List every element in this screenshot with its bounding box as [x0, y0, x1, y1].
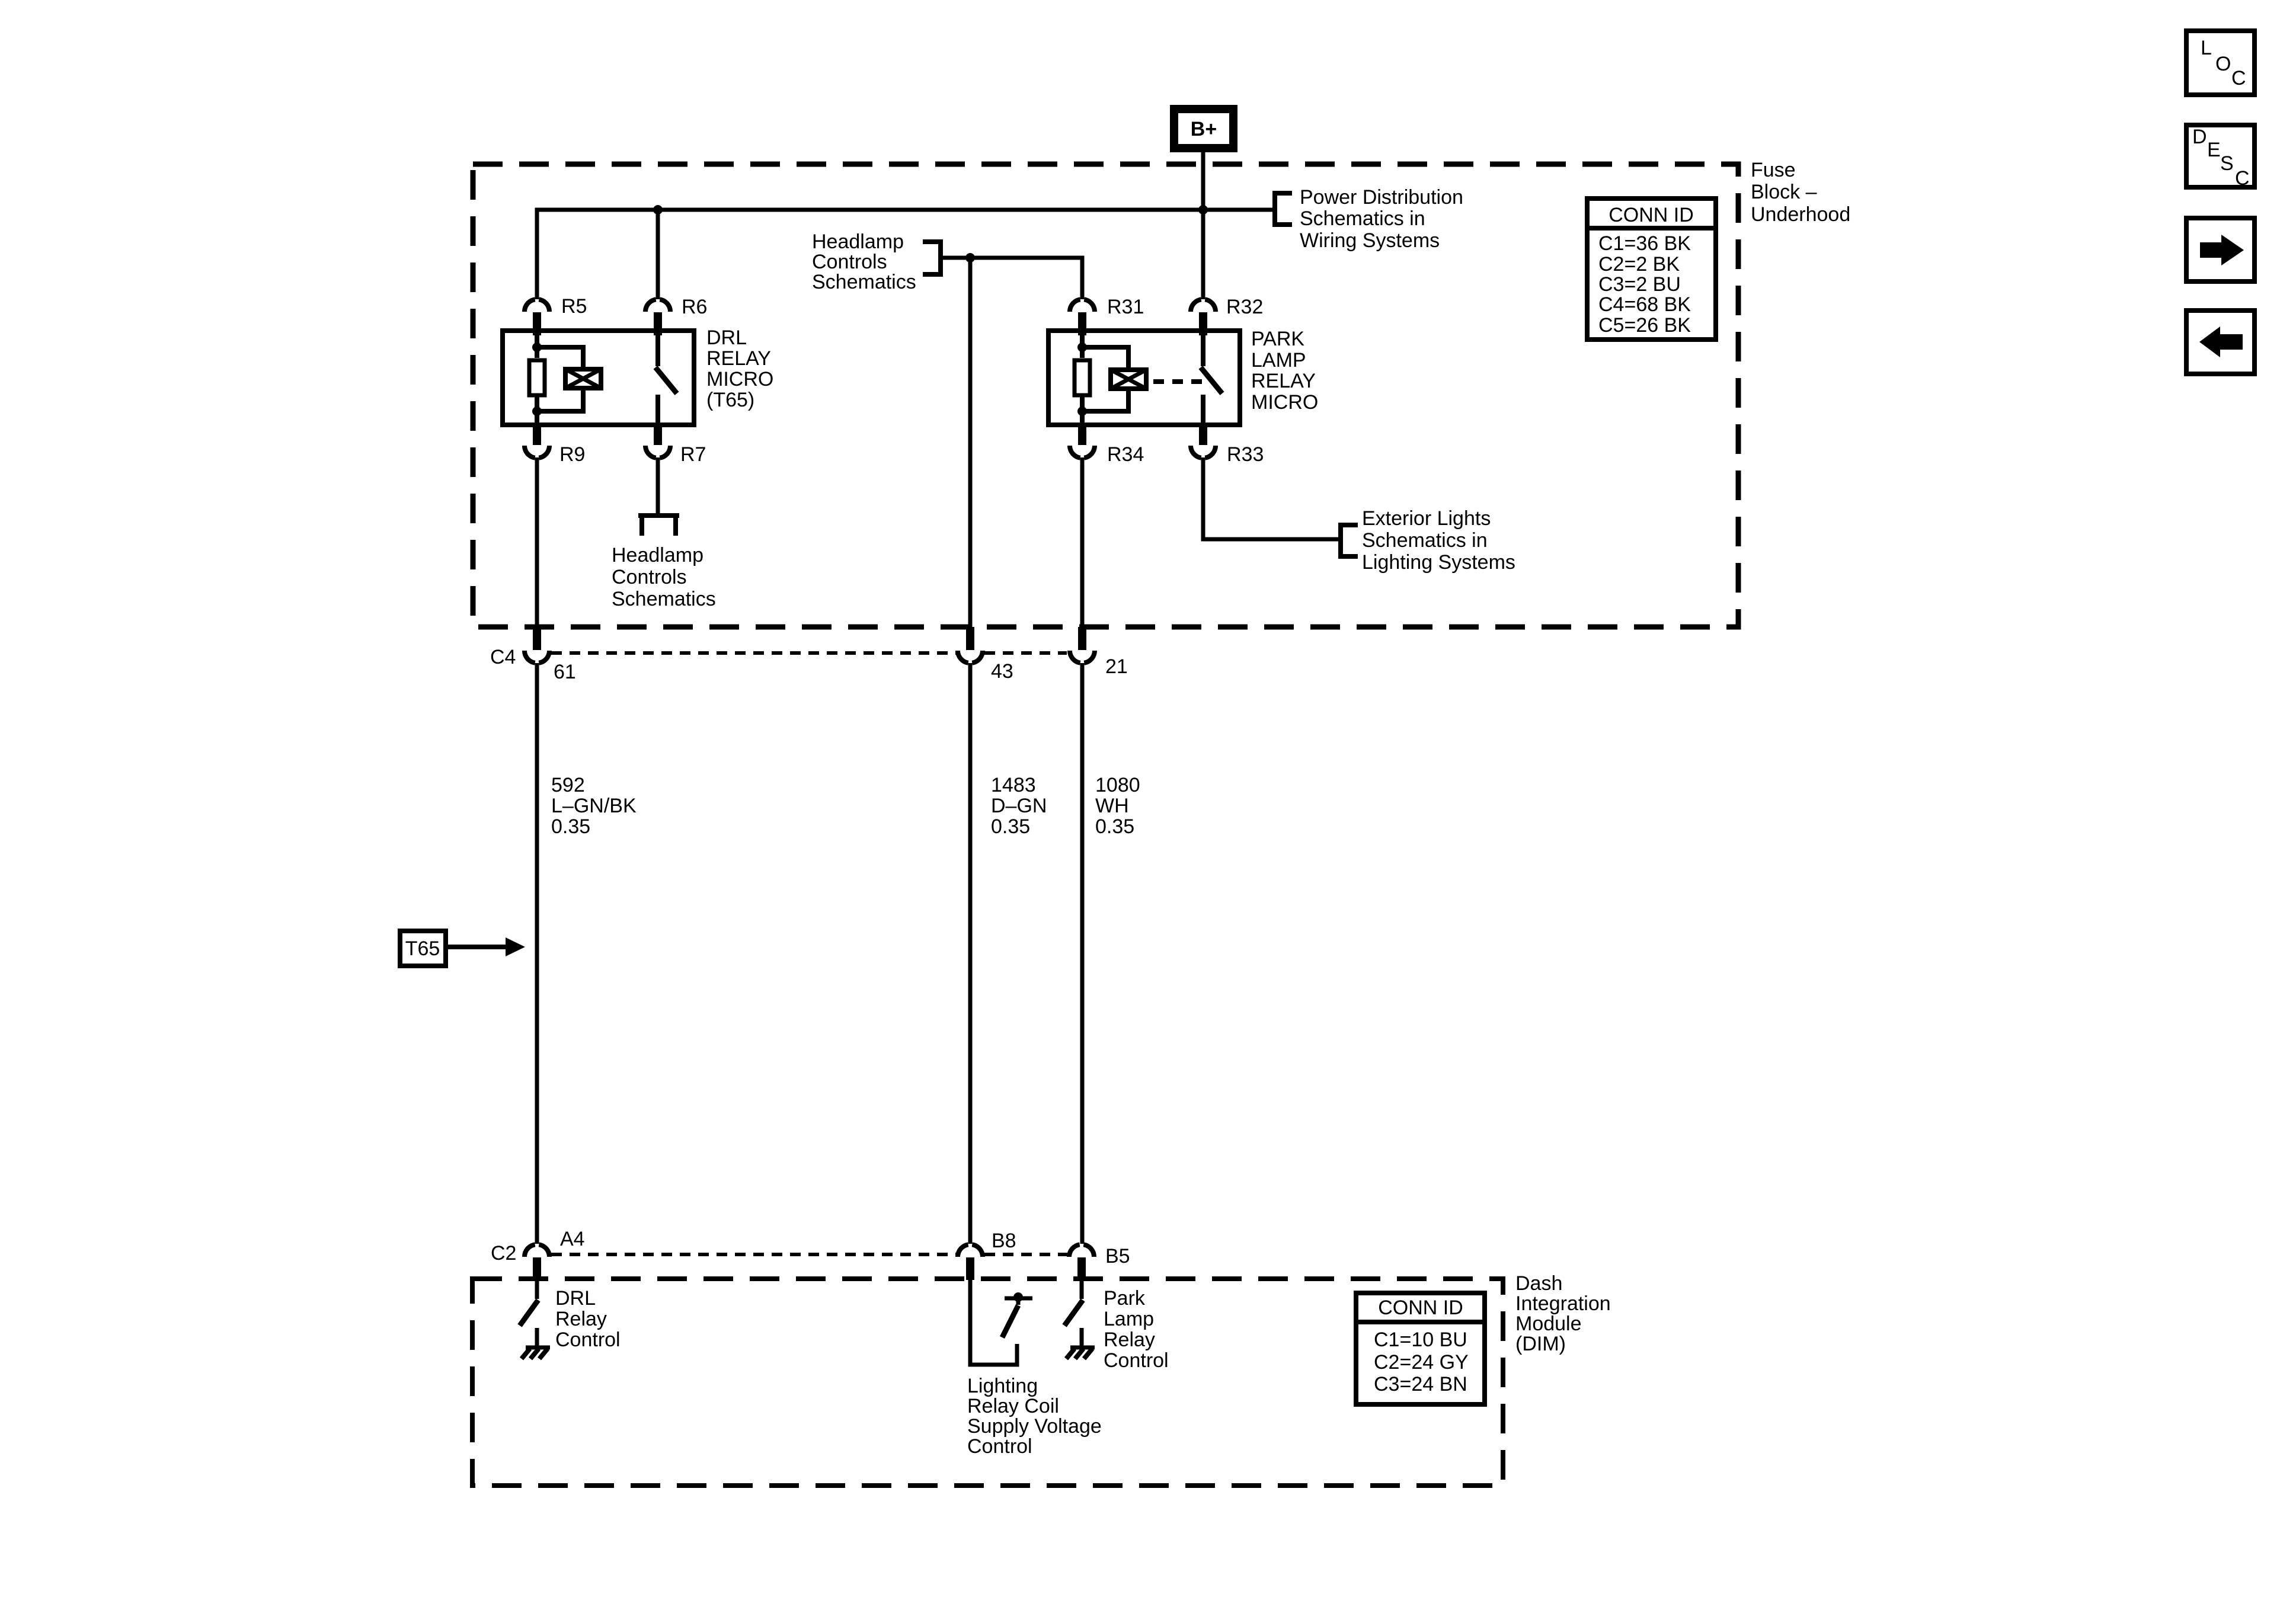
connector R34	[1070, 423, 1144, 466]
svg-text:Headlamp: Headlamp	[612, 544, 703, 566]
icon arrow previous	[2186, 311, 2255, 374]
connector C4 pin 61	[490, 627, 576, 683]
svg-text:Relay Coil: Relay Coil	[967, 1395, 1059, 1417]
connector C2 pin B5	[1069, 1244, 1130, 1280]
connector R32	[1191, 296, 1263, 335]
svg-text:C4: C4	[490, 646, 516, 668]
svg-text:R5: R5	[561, 295, 587, 318]
node DRL coil top	[532, 343, 542, 352]
svg-text:Controls: Controls	[612, 566, 687, 588]
label 592 L-GN/BK 0.35	[551, 774, 637, 838]
svg-text:Control: Control	[967, 1435, 1032, 1458]
svg-text:Integration: Integration	[1515, 1292, 1611, 1315]
svg-text:Relay: Relay	[1104, 1329, 1155, 1351]
relay K-DRL box	[503, 331, 694, 425]
svg-text:Schematics: Schematics	[612, 588, 716, 610]
table CONN ID fuse block	[1587, 199, 1716, 340]
svg-text:Dash: Dash	[1515, 1272, 1562, 1295]
wire C2 harness line dotted	[551, 1253, 956, 1256]
node PARK coil top	[1077, 343, 1087, 352]
svg-text:0.35: 0.35	[991, 815, 1030, 838]
wire B+ vertical	[1201, 150, 1205, 299]
bracket headlamp controls (lower)	[638, 513, 679, 518]
label Power Distribution Schematics in Wiring Systems	[1300, 186, 1463, 252]
svg-text:R9: R9	[559, 443, 585, 466]
coil DRL relay	[565, 369, 601, 388]
svg-text:Control: Control	[1104, 1349, 1169, 1372]
bracket power distribution	[1275, 193, 1292, 225]
svg-text:Control: Control	[555, 1329, 621, 1351]
svg-text:Wiring Systems: Wiring Systems	[1300, 229, 1440, 252]
node junction headlamp feed	[965, 253, 975, 263]
arrow T65 pointer	[448, 937, 525, 956]
svg-text:Supply Voltage: Supply Voltage	[967, 1415, 1102, 1438]
wire 1080 WH	[1080, 663, 1085, 1244]
svg-text:Relay: Relay	[555, 1308, 607, 1330]
svg-text:A4: A4	[560, 1228, 585, 1250]
relay K-PARK box	[1048, 331, 1240, 425]
label Dash Integration Module (DIM)	[1515, 1272, 1611, 1355]
svg-text:C2=24 GY: C2=24 GY	[1374, 1351, 1469, 1374]
svg-text:DRL: DRL	[555, 1287, 596, 1310]
node PARK coil bottom	[1077, 406, 1087, 416]
svg-text:R7: R7	[680, 443, 706, 466]
svg-text:Module: Module	[1515, 1313, 1582, 1335]
svg-text:0.35: 0.35	[1095, 815, 1134, 838]
svg-text:D–GN: D–GN	[991, 795, 1047, 817]
svg-text:Park: Park	[1104, 1287, 1146, 1310]
svg-text:B5: B5	[1105, 1245, 1130, 1267]
svg-text:CONN ID: CONN ID	[1609, 204, 1694, 226]
svg-text:1483: 1483	[991, 774, 1036, 796]
svg-text:WH: WH	[1095, 795, 1129, 817]
svg-text:O: O	[2215, 53, 2231, 75]
connector R33	[1191, 423, 1264, 466]
svg-text:61: 61	[554, 661, 576, 683]
switch DRL relay contact	[655, 332, 677, 424]
svg-text:R34: R34	[1107, 443, 1144, 466]
svg-text:R32: R32	[1226, 296, 1263, 318]
wire R9 to C4	[535, 457, 539, 627]
svg-text:PARK: PARK	[1251, 328, 1304, 350]
coil PARK relay	[1111, 370, 1146, 389]
connector C4 pin 43	[958, 627, 1013, 683]
svg-text:C2: C2	[491, 1242, 516, 1265]
svg-text:C4=68 BK: C4=68 BK	[1598, 293, 1691, 316]
label Lighting Relay Coil Supply Voltage Control	[967, 1375, 1102, 1458]
svg-text:C3=2 BU: C3=2 BU	[1598, 273, 1681, 296]
svg-text:L–GN/BK: L–GN/BK	[551, 795, 637, 817]
svg-text:21: 21	[1105, 655, 1128, 678]
wire DRL coil loop	[537, 347, 583, 411]
label Exterior Lights Schematics in Lighting Systems	[1362, 507, 1515, 574]
svg-text:S: S	[2220, 152, 2234, 175]
wire PARK linkage dashed	[1153, 379, 1210, 384]
svg-text:DRL: DRL	[706, 327, 747, 349]
svg-text:Controls: Controls	[812, 251, 887, 273]
svg-text:43: 43	[991, 660, 1013, 683]
svg-text:Schematics: Schematics	[812, 271, 916, 293]
node junction B+ on bus	[1198, 205, 1208, 215]
svg-text:E: E	[2207, 139, 2221, 161]
label Fuse Block Underhood	[1751, 159, 1850, 226]
svg-text:Headlamp: Headlamp	[812, 231, 904, 253]
svg-text:C1=36 BK: C1=36 BK	[1598, 232, 1691, 255]
svg-text:Block –: Block –	[1751, 181, 1817, 203]
label Headlamp Controls Schematics (top)	[812, 231, 916, 293]
wire R7 to headlamp controls	[656, 457, 660, 513]
ground DRL driver	[522, 1328, 550, 1359]
svg-text:Schematics in: Schematics in	[1300, 207, 1425, 230]
bracket exterior lights	[1341, 525, 1358, 556]
connector C4 pin 21	[1070, 627, 1128, 678]
connector R9	[525, 423, 585, 466]
wire DRL coil bottom	[535, 397, 539, 423]
svg-text:(DIM): (DIM)	[1515, 1333, 1566, 1355]
wire PARK coil top	[1080, 332, 1085, 358]
label DRL RELAY MICRO (T65)	[706, 327, 773, 411]
svg-text:RELAY: RELAY	[1251, 370, 1316, 392]
svg-text:MICRO: MICRO	[1251, 391, 1318, 414]
icon LOC	[2186, 31, 2255, 95]
node DRL coil bottom	[532, 406, 542, 416]
svg-text:Fuse: Fuse	[1751, 159, 1796, 181]
connector C2 pin B8	[958, 1230, 1016, 1280]
svg-text:C2=2 BK: C2=2 BK	[1598, 253, 1680, 276]
wire 1483 D-GN	[968, 663, 973, 1244]
svg-text:B8: B8	[992, 1230, 1016, 1252]
wire PARK coil loop	[1082, 347, 1128, 411]
svg-text:Exterior Lights: Exterior Lights	[1362, 507, 1491, 530]
svg-text:R31: R31	[1107, 296, 1144, 318]
dash integration module dashed box	[472, 1279, 1503, 1486]
svg-text:T65: T65	[405, 937, 440, 960]
connector R7	[645, 423, 706, 466]
svg-text:Lamp: Lamp	[1104, 1308, 1154, 1330]
node junction R6 on bus	[653, 205, 663, 215]
switch lighting relay coil supply	[1002, 1292, 1032, 1337]
icon arrow next	[2186, 218, 2255, 281]
svg-text:C: C	[2235, 167, 2250, 190]
connector C2 pin A4	[491, 1228, 585, 1280]
label T65 callout box	[400, 931, 446, 966]
wire 43 long vertical	[968, 258, 973, 627]
wire R6 drop	[656, 210, 660, 299]
svg-text:R6: R6	[682, 296, 707, 318]
svg-text:CONN ID: CONN ID	[1378, 1297, 1463, 1319]
svg-text:0.35: 0.35	[551, 815, 590, 838]
label Park Lamp Relay Control	[1104, 1287, 1169, 1372]
svg-text:(T65): (T65)	[706, 389, 754, 411]
bracket headlamp controls (top)	[923, 242, 941, 274]
wire B8 lighting relay coil supply	[970, 1280, 1017, 1365]
table CONN ID DIM	[1356, 1293, 1485, 1404]
svg-text:C: C	[2231, 67, 2246, 89]
connector R31	[1070, 296, 1144, 335]
svg-text:Underhood: Underhood	[1751, 203, 1850, 226]
svg-text:D: D	[2192, 126, 2207, 148]
svg-text:1080: 1080	[1095, 774, 1140, 796]
svg-text:C5=26 BK: C5=26 BK	[1598, 314, 1691, 337]
switch PARK relay contact	[1201, 332, 1222, 424]
switch DRL relay control driver	[520, 1280, 538, 1326]
wire DRL coil top	[535, 332, 539, 358]
svg-text:C3=24 BN: C3=24 BN	[1374, 1373, 1467, 1395]
svg-text:L: L	[2201, 37, 2212, 59]
svg-text:Schematics in: Schematics in	[1362, 529, 1488, 552]
wire R33 to exterior lights	[1203, 457, 1341, 539]
svg-text:MICRO: MICRO	[706, 368, 773, 391]
wire C4 harness line dotted	[551, 651, 956, 655]
svg-text:Power Distribution: Power Distribution	[1300, 186, 1463, 209]
wire headlamp feed to R31	[941, 258, 1082, 299]
wire R34 to C4	[1080, 457, 1085, 627]
svg-text:R33: R33	[1227, 443, 1264, 466]
label DRL Relay Control	[555, 1287, 621, 1351]
svg-text:592: 592	[551, 774, 585, 796]
label 1483 D-GN 0.35	[991, 774, 1047, 838]
label PARK LAMP RELAY MICRO	[1251, 328, 1318, 414]
svg-text:Lighting: Lighting	[967, 1375, 1038, 1397]
ground park lamp driver	[1066, 1328, 1095, 1359]
svg-text:RELAY: RELAY	[706, 347, 771, 370]
label 1080 WH 0.35	[1095, 774, 1140, 838]
fuse block underhood dashed box	[473, 164, 1738, 627]
connector R5	[525, 295, 587, 335]
svg-text:C1=10 BU: C1=10 BU	[1374, 1329, 1467, 1351]
svg-text:LAMP: LAMP	[1251, 349, 1306, 372]
wire 592 L-GN/BK	[535, 663, 539, 1244]
wire main bus	[537, 210, 1272, 299]
icon DESC	[2186, 125, 2255, 190]
svg-text:Lighting Systems: Lighting Systems	[1362, 551, 1515, 574]
resistor PARK coil suppression	[1075, 360, 1090, 395]
wire PARK coil bottom	[1080, 397, 1085, 423]
switch park lamp relay control driver	[1064, 1280, 1083, 1326]
label Headlamp Controls Schematics (lower)	[612, 544, 716, 610]
resistor DRL coil suppression	[529, 360, 545, 395]
B+ power feed	[1174, 109, 1233, 148]
svg-text:B+: B+	[1191, 118, 1217, 140]
connector R6	[645, 296, 707, 335]
